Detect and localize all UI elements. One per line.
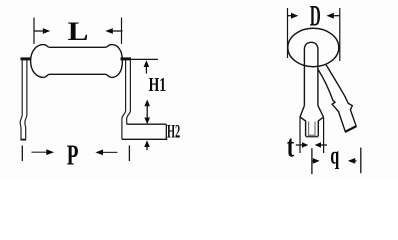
q right-pointing arrow — [313, 158, 320, 164]
svg-text:H2: H2 — [167, 122, 180, 143]
q left tick — [311, 148, 313, 174]
H1/H2 double arrow — [144, 100, 150, 125]
dim P left tick — [21, 146, 23, 162]
front lead tip bottom — [306, 136, 319, 138]
front lead hollow tip inner lines — [309, 122, 315, 136]
dim P left-pointing arrow — [95, 150, 117, 156]
dim P right-pointing arrow — [32, 149, 55, 155]
dim L left extension line — [33, 18, 35, 45]
angled lead tip end — [345, 126, 357, 132]
q right tick — [360, 148, 362, 174]
right lead (with break jog) — [122, 60, 130, 139]
svg-text:L: L — [68, 16, 89, 46]
left end cap tab — [21, 57, 32, 60]
resistor body (dog-bone outline) — [31, 45, 123, 78]
svg-text:q: q — [330, 143, 339, 170]
t extension line left — [299, 118, 301, 153]
dim L left arrow — [34, 28, 50, 34]
H1 reference line — [131, 58, 158, 60]
H1 upper arrow (points up) — [144, 60, 150, 73]
q left-pointing arrow — [348, 158, 357, 164]
left lead bottom end — [20, 139, 26, 141]
H2 lower arrow (points up at foot bottom) — [144, 140, 150, 150]
dim L right extension line — [121, 18, 123, 45]
front lead (vertical, crimped) — [300, 42, 324, 136]
svg-text:t: t — [287, 129, 295, 164]
t arrows (point to centre) — [296, 142, 327, 147]
dim P right tick — [128, 146, 130, 162]
left lead (with break jog) — [20, 60, 27, 139]
dim D left arrow — [288, 13, 299, 19]
dim D left extension line — [287, 8, 289, 58]
t extension line right — [323, 118, 325, 153]
angled lead (crimped, rotated) — [318, 65, 356, 132]
dim D right extension line — [339, 8, 341, 61]
right end cap tab — [121, 57, 132, 60]
svg-text:H1: H1 — [149, 74, 167, 96]
dim L right arrow — [105, 28, 122, 34]
dim D right arrow — [327, 13, 340, 19]
body ellipse — [288, 28, 339, 66]
bent foot (H2 portion) — [122, 124, 167, 139]
svg-text:P: P — [67, 140, 79, 172]
